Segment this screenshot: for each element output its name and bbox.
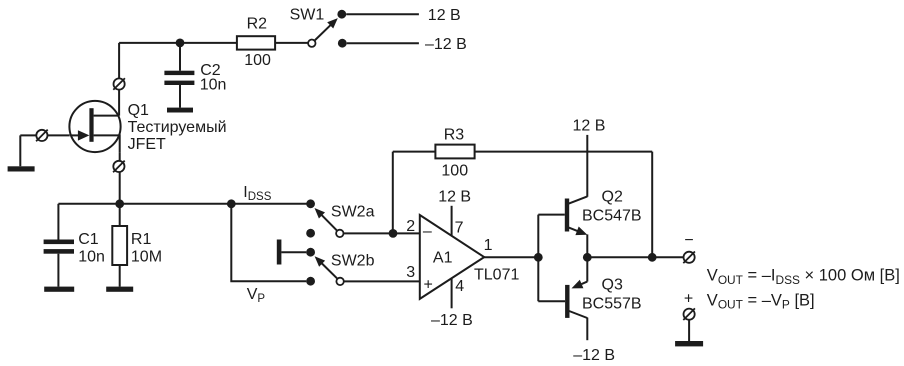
svg-text:Тестируемый: Тестируемый [128, 119, 227, 136]
switch SW1 contact -12V [338, 39, 347, 48]
wire bottom rail (source line) [58, 203, 310, 205]
svg-text:100: 100 [244, 52, 271, 69]
svg-text:C1: C1 [78, 231, 99, 248]
wire bases tie [537, 215, 539, 302]
svg-text:Q3: Q3 [602, 276, 623, 293]
svg-text:100: 100 [441, 163, 468, 180]
wire Q3 emitter from output node [586, 257, 588, 281]
svg-text:3: 3 [406, 264, 415, 281]
wire Q1 gate to ground [20, 135, 69, 166]
wire R3 right lead to output node [475, 151, 653, 153]
wire SW2b pole to op-amp pin 3 [344, 280, 419, 282]
wire R3 left lead [393, 151, 436, 153]
wire R1 top lead [119, 204, 121, 226]
capacitor C1 [44, 240, 74, 245]
terminal output + [683, 308, 695, 320]
wire Q2 base lead [538, 214, 565, 216]
transistor Q2 emitter lead with arrow [569, 228, 579, 232]
op-amp A1 triangle [420, 215, 484, 299]
svg-text:TL071: TL071 [474, 266, 519, 283]
svg-text:R1: R1 [131, 231, 152, 248]
terminal Q1 gate [36, 130, 48, 142]
wire Q2 collector to 12V [586, 135, 588, 197]
node bases junction [534, 253, 543, 262]
wire Q3 collector to -12V [586, 318, 588, 341]
switch SW2a lever [320, 214, 337, 231]
transistor Q2 collector lead [569, 196, 588, 203]
transistor Q3 collector lead [569, 311, 587, 318]
node C2 junction on top rail [176, 39, 185, 48]
wire C2 top lead [179, 43, 181, 71]
terminal output − [683, 252, 695, 264]
switch SW2b lever [320, 262, 337, 279]
transistor Q1 gate lead with arrow [71, 134, 81, 136]
svg-text:−: − [684, 232, 693, 249]
terminal Q1 drain [113, 78, 125, 90]
resistor R2 [237, 36, 275, 49]
svg-text:SW2b: SW2b [331, 252, 375, 269]
wire Q1 drain riser [118, 43, 120, 116]
svg-text:A1: A1 [433, 250, 453, 267]
svg-text:12 В: 12 В [438, 188, 471, 205]
ground bar at SW2b contact [277, 240, 282, 265]
node pin2 / R3 junction [389, 229, 398, 238]
svg-text:BC547B: BC547B [582, 208, 642, 225]
wire output line [587, 256, 683, 258]
wire C1 top lead [57, 204, 59, 240]
wire C1 bottom lead [57, 254, 59, 287]
switch SW2a pole [336, 230, 343, 237]
svg-text:+: + [424, 276, 433, 293]
wire Q3 base lead [538, 300, 565, 302]
wire R3 feedback drop [651, 152, 653, 258]
wire to -12V supply [347, 42, 419, 44]
wire + terminal to ground [688, 320, 690, 341]
svg-text:10n: 10n [78, 248, 105, 265]
transistor Q1 JFET circle [69, 101, 120, 152]
transistor Q1 channel bar [89, 108, 93, 142]
wire top rail from Q1 drain to R2 [119, 42, 237, 44]
svg-text:–12 В: –12 В [431, 312, 473, 329]
svg-text:Q1: Q1 [128, 102, 149, 119]
switch SW2b contact V_P [306, 277, 315, 286]
wire R2 to SW1 pole [275, 42, 308, 44]
capacitor C2 [164, 71, 194, 75]
resistor R1 [112, 226, 127, 265]
svg-text:+: + [684, 290, 693, 307]
svg-text:–: – [423, 223, 432, 240]
svg-text:1: 1 [484, 237, 493, 254]
node emitters junction [583, 253, 592, 262]
transistor Q2 base bar [565, 199, 569, 232]
transistor Q1 source lead [94, 135, 120, 152]
ground at + terminal [675, 341, 703, 346]
switch SW1 contact 12V [337, 10, 346, 19]
svg-text:12 В: 12 В [573, 118, 606, 135]
node below Q1 source [115, 199, 124, 208]
svg-text:10n: 10n [200, 77, 227, 94]
wire R1 bottom lead [119, 265, 121, 287]
svg-text:BC557B: BC557B [582, 295, 642, 312]
wire V_P branch [231, 204, 306, 281]
ground at Q1 gate [8, 166, 35, 171]
ground under C1 [44, 287, 74, 292]
transistor Q1 drain lead [94, 115, 120, 117]
svg-text:2: 2 [406, 218, 415, 235]
switch SW2b contact ground [306, 248, 315, 257]
wire C2 bottom lead [179, 85, 181, 108]
svg-text:R2: R2 [247, 16, 268, 33]
wire pin 4 supply [451, 278, 453, 308]
svg-text:–12 В: –12 В [425, 36, 467, 53]
transistor Q3 emitter lead with arrow [582, 282, 588, 285]
svg-text:Q2: Q2 [602, 189, 623, 206]
switch SW2a contact open [306, 229, 315, 238]
wire op-amp output to bases [484, 256, 538, 258]
ground under C2 [167, 108, 193, 113]
svg-text:R3: R3 [444, 126, 465, 143]
wire pin 7 supply [451, 206, 453, 236]
svg-text:12 В: 12 В [428, 7, 461, 24]
switch SW2b pole [336, 278, 343, 285]
wire Q2 emitter to output node [586, 234, 588, 257]
wire ground bar to SW2b contact [281, 251, 306, 253]
svg-text:SW2a: SW2a [331, 204, 375, 221]
svg-text:4: 4 [455, 278, 464, 295]
svg-text:7: 7 [455, 220, 464, 237]
switch SW2a contact I_DSS [306, 199, 315, 208]
terminal Q1 source [113, 161, 125, 173]
resistor R3 [435, 145, 474, 159]
wire R3 branch riser [392, 152, 394, 234]
svg-text:JFET: JFET [128, 136, 166, 153]
svg-text:10M: 10M [131, 248, 162, 265]
wire Q1 source to bottom rail [119, 152, 121, 204]
node feedback/output junction [648, 253, 657, 262]
wire SW2a pole to op-amp pin 2 [344, 232, 420, 234]
wire to 12V supply [346, 13, 419, 15]
switch SW1 pole [308, 40, 315, 47]
node V_P branch junction [227, 199, 236, 208]
switch SW1 lever [315, 24, 333, 41]
svg-text:SW1: SW1 [290, 7, 325, 24]
transistor Q3 base bar [565, 285, 569, 318]
svg-text:–12 В: –12 В [573, 347, 615, 364]
ground under R1 [106, 287, 133, 292]
